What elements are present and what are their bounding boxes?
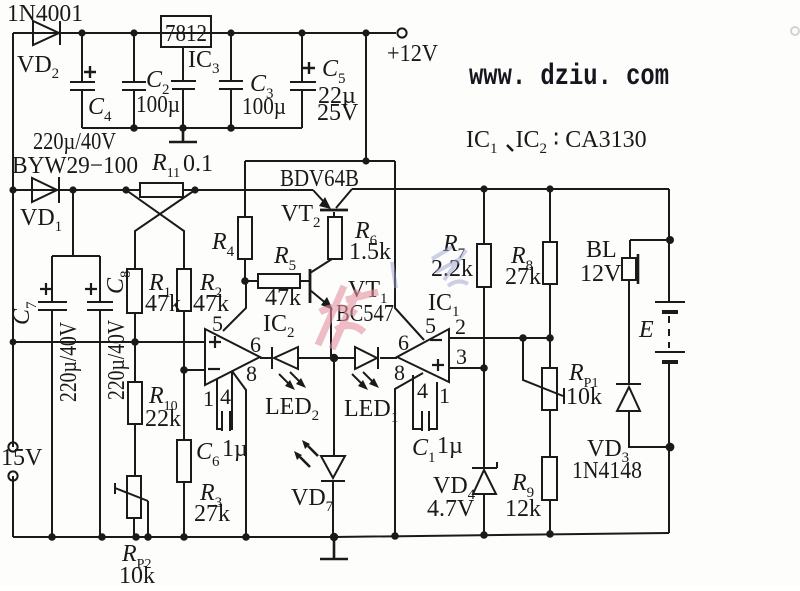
svg-text:1.5k: 1.5k — [349, 239, 391, 265]
LED1 — [352, 347, 397, 390]
capacitor C3 — [219, 33, 243, 128]
resistor R7 — [477, 189, 491, 368]
wire bottom ground rail — [13, 533, 669, 537]
node dot pin3 — [480, 364, 488, 372]
wire R2 bottom to inverting node — [183, 311, 185, 440]
wire LED junction — [298, 357, 355, 359]
capacitor C4 — [70, 33, 96, 128]
ground symbol under 7812 — [169, 128, 197, 142]
svg-text:LED2: LED2 — [265, 394, 319, 424]
wire rail from VD1 through R11 to VT2 emitter — [13, 189, 313, 191]
svg-text:10k: 10k — [119, 563, 155, 586]
svg-text:+12V: +12V — [387, 41, 439, 67]
svg-text:7812: 7812 — [165, 21, 207, 47]
svg-text:47k: 47k — [193, 291, 229, 317]
svg-text:6: 6 — [250, 332, 261, 357]
resistor R10 — [128, 342, 142, 476]
node dot BL tap — [666, 236, 674, 244]
node dots on rectifier rail — [9, 186, 198, 193]
node dot VD3 to battery line — [666, 443, 675, 452]
svg-text:1N4148: 1N4148 — [572, 458, 642, 484]
wire top +12V rail — [13, 32, 396, 34]
svg-text:4.7V: 4.7V — [427, 496, 475, 522]
node junction dots on top rail — [78, 29, 369, 36]
svg-text:47k: 47k — [265, 285, 301, 311]
svg-text:100µ: 100µ — [242, 94, 286, 120]
pin 8 of IC2 wire to ground — [232, 371, 246, 537]
svg-text:BYW29−100: BYW29−100 — [12, 153, 138, 179]
svg-text:4: 4 — [417, 378, 428, 403]
potentiometer RP2 — [115, 476, 148, 537]
resistor R6 — [328, 212, 342, 259]
svg-text:220µ/40V: 220µ/40V — [56, 321, 82, 402]
svg-text:6: 6 — [398, 330, 409, 355]
wire crossover to R1 R2 — [126, 190, 195, 269]
minus sign IC2 — [208, 368, 220, 370]
svg-text:12V: 12V — [580, 261, 622, 287]
svg-text:27k: 27k — [194, 501, 230, 527]
svg-text:25V: 25V — [317, 100, 359, 126]
svg-text:E: E — [638, 317, 654, 343]
capacitor C7 — [38, 283, 67, 537]
svg-text:4: 4 — [220, 384, 231, 409]
resistor R4 — [238, 161, 252, 281]
svg-text:1N4001: 1N4001 — [7, 1, 83, 27]
svg-text:1µ: 1µ — [437, 433, 463, 459]
diode VD2 — [33, 21, 60, 45]
terminal 15V input lower — [8, 471, 17, 480]
wire IC2 inverting input line — [184, 369, 205, 371]
terminal +12V output — [397, 28, 406, 37]
resistor R8 — [543, 189, 557, 338]
capacitor C2 — [122, 33, 146, 128]
pins 1 4 of IC2 with compensation cap — [217, 372, 232, 431]
regulator IC3 7812 box — [161, 16, 211, 47]
svg-text:BDV64B: BDV64B — [280, 166, 359, 192]
terminal 15V input upper — [8, 442, 17, 451]
wire rail VT2 collector to battery branch — [352, 188, 669, 190]
node dot at wire A tap — [362, 157, 369, 164]
transistor VT1 — [310, 259, 333, 358]
wire filter bottom bus — [82, 127, 302, 129]
transistor VT2 — [313, 189, 352, 210]
svg-text:47k: 47k — [145, 291, 181, 317]
svg-text:1: 1 — [439, 383, 450, 408]
pin 5 of IC1 wire — [396, 309, 424, 340]
svg-text:1: 1 — [203, 386, 214, 411]
wire feed to C7 C8 — [52, 190, 100, 302]
svg-text:220µ/40V: 220µ/40V — [33, 129, 117, 155]
minus sign IC1 — [430, 339, 442, 341]
battery E — [655, 189, 685, 533]
svg-text:8: 8 — [394, 360, 405, 385]
diode VD1 — [32, 177, 59, 203]
wire +12V feed to pin5 net — [245, 33, 424, 340]
pin 2 output wire — [449, 337, 550, 339]
svg-text:220µ/40V: 220µ/40V — [104, 319, 130, 400]
svg-text:3: 3 — [456, 344, 467, 369]
svg-text:BL: BL — [586, 237, 617, 263]
resistor R11 — [140, 183, 183, 197]
node dots on +input line — [10, 338, 139, 346]
op-amp IC1 — [397, 329, 449, 382]
watermark pink — [318, 286, 378, 349]
svg-text:12k: 12k — [505, 496, 541, 522]
op-amp IC2 — [205, 329, 260, 385]
svg-text:1µ: 1µ — [222, 436, 248, 462]
node dots on ground rail — [48, 530, 554, 541]
pins 4 1 of IC1 with compensation cap C1 — [413, 375, 437, 431]
pin 5 of IC2 wire — [223, 281, 246, 331]
svg-text:www. dziu. com: www. dziu. com — [469, 60, 669, 94]
terminal mark top right — [791, 27, 799, 35]
wire IC2 noninverting input line — [13, 341, 205, 343]
svg-text:LED1: LED1 — [344, 396, 398, 426]
svg-text:22k: 22k — [145, 406, 181, 432]
pin 3 wire — [449, 367, 484, 369]
svg-text:15V: 15V — [1, 445, 43, 471]
potentiometer RP1 — [523, 338, 564, 457]
resistor R1 — [127, 269, 142, 313]
svg-text:10k: 10k — [566, 384, 602, 410]
zener diode VD4 — [472, 368, 497, 535]
plus sign IC2 — [209, 336, 221, 348]
svg-text:0.1: 0.1 — [183, 151, 213, 177]
node dot inverting input — [180, 366, 188, 374]
resistor R5 — [245, 274, 310, 288]
node dots on pin2 net — [519, 334, 554, 342]
capacitor under 7812 ground pin — [171, 47, 196, 128]
wire R1 bottom to node — [134, 313, 136, 342]
wire left bus vertical — [12, 33, 14, 537]
pin 8 of IC1 wire to ground — [395, 373, 423, 537]
watermark blue — [392, 247, 468, 288]
svg-text:8: 8 — [246, 361, 257, 386]
buzzer BL — [622, 240, 670, 384]
label IC1 IC2 CA3130 — [466, 127, 647, 157]
capacitor C8 — [85, 283, 113, 537]
node dots on collector rail — [480, 185, 553, 192]
svg-text:2: 2 — [455, 314, 466, 339]
node dot R4 R5 pin5 junction — [241, 277, 249, 285]
svg-text:100µ: 100µ — [136, 92, 180, 118]
ground symbol bottom — [320, 537, 348, 559]
LED2 — [260, 347, 306, 390]
plus sign IC1 — [432, 359, 444, 371]
resistor R3 — [177, 440, 191, 537]
resistor R2 — [177, 269, 191, 311]
diode VD3 — [616, 384, 670, 447]
node dots on filter bottom bus — [130, 124, 235, 132]
svg-text:5: 5 — [425, 313, 436, 338]
node dot LED junction — [330, 354, 338, 362]
resistor R9 — [542, 457, 557, 534]
LED VD7 — [294, 358, 345, 537]
svg-text:5: 5 — [212, 311, 223, 336]
svg-text:27k: 27k — [505, 264, 541, 290]
capacitor C5 — [290, 33, 316, 128]
